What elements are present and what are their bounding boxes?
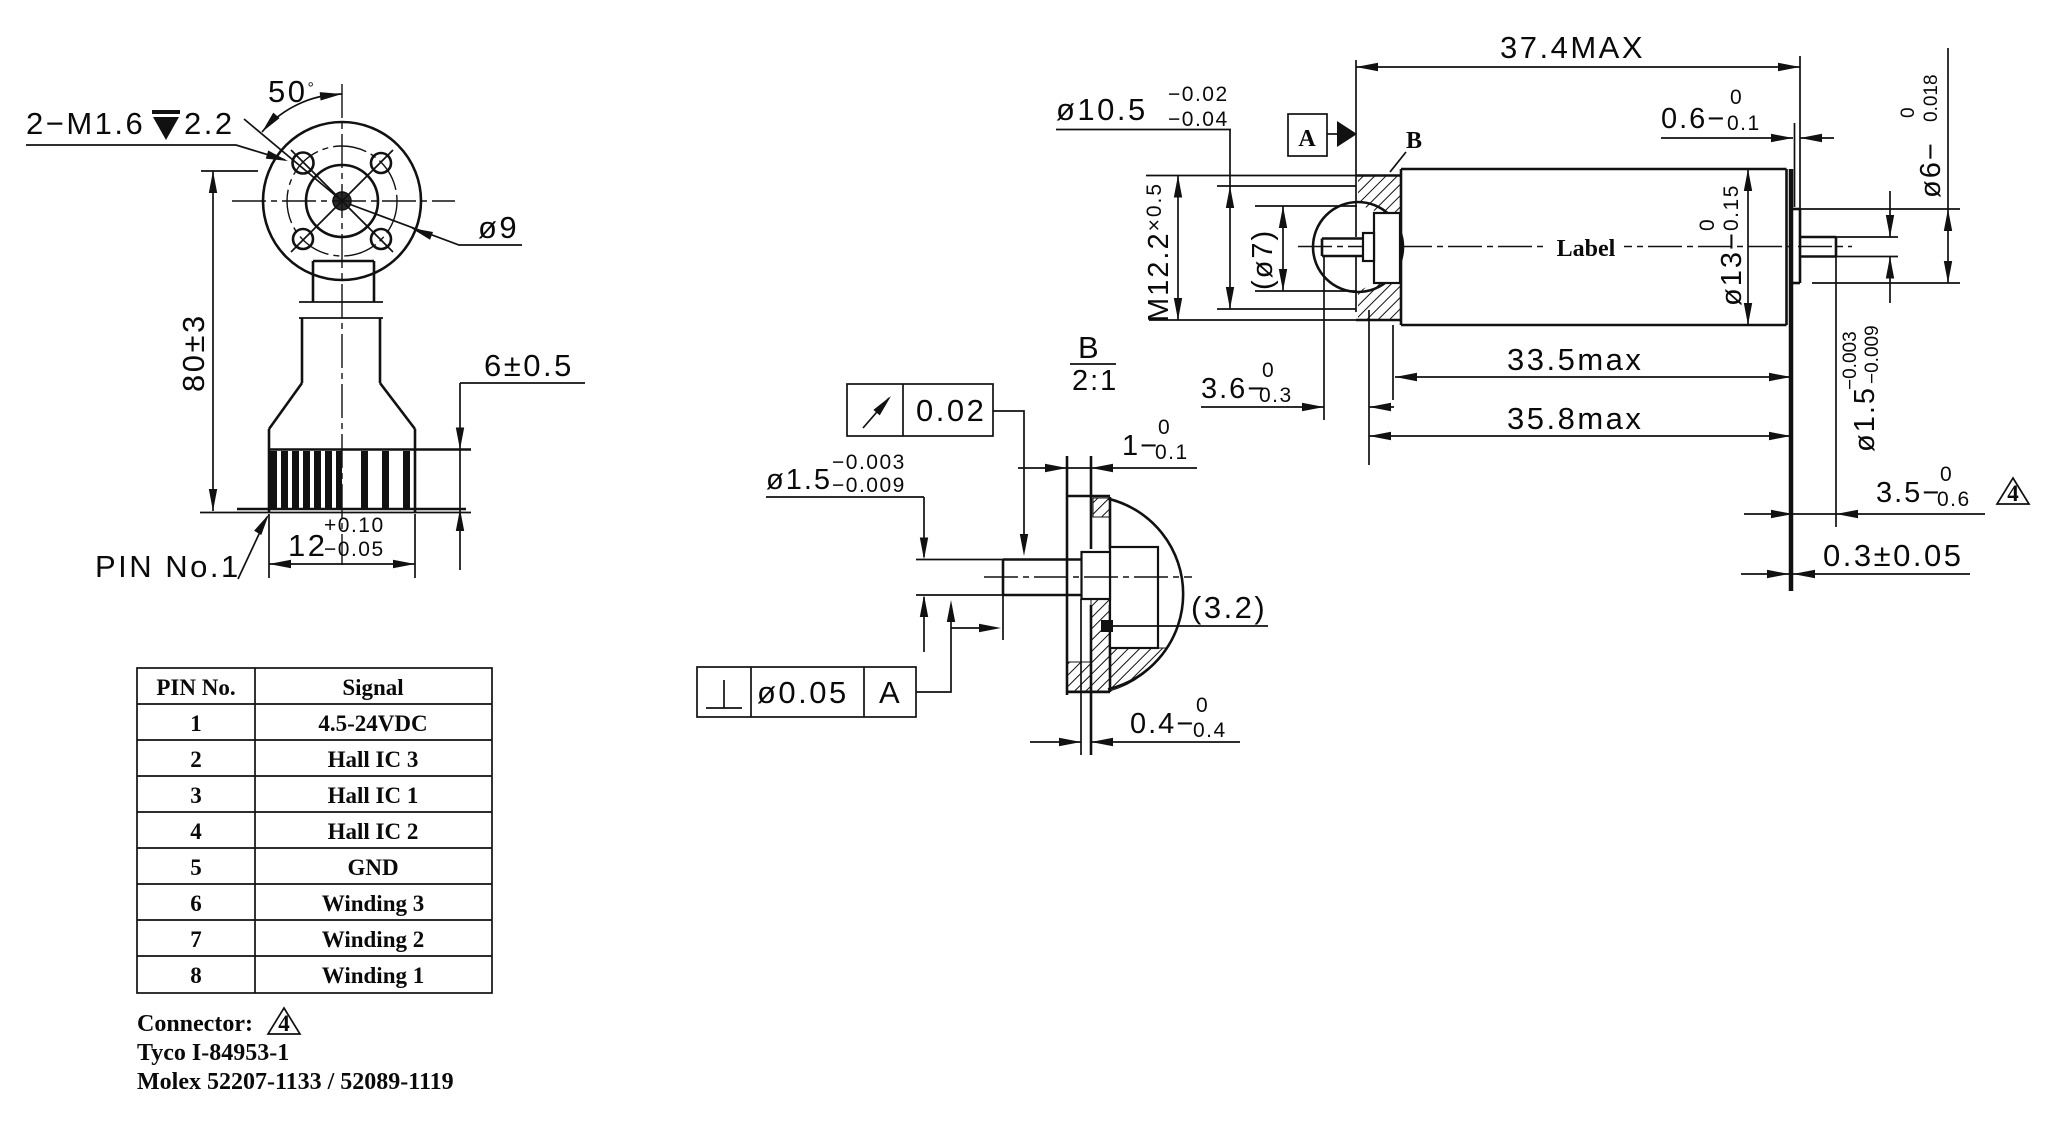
svg-text:0.3±0.05: 0.3±0.05 bbox=[1823, 538, 1963, 573]
svg-text:Hall IC 3: Hall IC 3 bbox=[328, 747, 419, 772]
svg-text:−0.05: −0.05 bbox=[324, 538, 385, 561]
svg-text:3: 3 bbox=[190, 783, 202, 808]
svg-text:0.4−: 0.4− bbox=[1130, 708, 1195, 740]
svg-text:Molex 52207-1133 / 52089-1119: Molex 52207-1133 / 52089-1119 bbox=[137, 1069, 454, 1095]
svg-text:35.8max: 35.8max bbox=[1507, 401, 1643, 436]
svg-text:−0.003: −0.003 bbox=[1840, 331, 1861, 390]
svg-text:0.1: 0.1 bbox=[1155, 441, 1189, 464]
svg-text:−0.04: −0.04 bbox=[1168, 108, 1229, 131]
svg-text:−0.02: −0.02 bbox=[1168, 83, 1229, 106]
svg-text:ø1.5: ø1.5 bbox=[766, 464, 832, 496]
svg-text:1: 1 bbox=[190, 711, 202, 736]
svg-text:(ø7): (ø7) bbox=[1247, 229, 1279, 290]
svg-text:0.4: 0.4 bbox=[1193, 719, 1227, 742]
svg-text:12: 12 bbox=[288, 528, 327, 563]
svg-text:0.02: 0.02 bbox=[916, 393, 986, 428]
svg-text:PIN No.: PIN No. bbox=[156, 675, 235, 700]
svg-text:0: 0 bbox=[1940, 463, 1953, 486]
svg-text:2−M1.6: 2−M1.6 bbox=[26, 106, 145, 141]
svg-text:ø6−: ø6− bbox=[1915, 141, 1947, 198]
svg-text:−0.009: −0.009 bbox=[832, 474, 906, 497]
svg-text:Signal: Signal bbox=[342, 675, 403, 700]
svg-text:Label: Label bbox=[1557, 236, 1616, 262]
svg-text:B: B bbox=[1078, 330, 1101, 365]
svg-text:−0.009: −0.009 bbox=[1862, 325, 1883, 384]
svg-text:3.5−: 3.5− bbox=[1876, 477, 1941, 509]
svg-text:Connector:: Connector: bbox=[137, 1011, 253, 1037]
svg-text:3.6−: 3.6− bbox=[1201, 373, 1266, 405]
svg-text:+0.10: +0.10 bbox=[324, 514, 385, 537]
svg-text:ø9: ø9 bbox=[478, 210, 519, 245]
svg-text:0: 0 bbox=[1730, 86, 1743, 109]
svg-text:B: B bbox=[1406, 128, 1422, 154]
svg-text:0: 0 bbox=[1262, 359, 1275, 382]
svg-text:(3.2): (3.2) bbox=[1191, 590, 1267, 625]
svg-text:2:1: 2:1 bbox=[1072, 365, 1118, 397]
svg-text:33.5max: 33.5max bbox=[1507, 342, 1643, 377]
svg-text:4.5-24VDC: 4.5-24VDC bbox=[318, 711, 427, 736]
svg-text:4: 4 bbox=[190, 819, 202, 844]
svg-text:−0.003: −0.003 bbox=[832, 451, 906, 474]
svg-text:Hall IC 1: Hall IC 1 bbox=[328, 783, 419, 808]
svg-text:4: 4 bbox=[278, 1011, 290, 1036]
svg-text:Hall IC 2: Hall IC 2 bbox=[328, 819, 419, 844]
svg-text:Winding 2: Winding 2 bbox=[322, 927, 425, 952]
svg-text:5: 5 bbox=[190, 855, 202, 880]
svg-text:0: 0 bbox=[1196, 694, 1209, 717]
svg-text:A: A bbox=[879, 675, 902, 710]
svg-text:1−: 1− bbox=[1122, 430, 1159, 462]
svg-text:6: 6 bbox=[190, 891, 202, 916]
svg-text:ø10.5: ø10.5 bbox=[1056, 92, 1148, 127]
svg-text:0: 0 bbox=[1158, 416, 1171, 439]
svg-text:A: A bbox=[1298, 126, 1316, 152]
svg-text:0.018: 0.018 bbox=[1921, 74, 1942, 122]
svg-text:4: 4 bbox=[2007, 481, 2019, 506]
svg-text:0: 0 bbox=[1898, 107, 1919, 118]
svg-text:2: 2 bbox=[190, 747, 202, 772]
svg-text:0.1: 0.1 bbox=[1727, 112, 1761, 135]
svg-text:ø0.05: ø0.05 bbox=[757, 675, 849, 710]
svg-text:2.2: 2.2 bbox=[184, 106, 235, 141]
svg-text:0.3: 0.3 bbox=[1259, 384, 1293, 407]
svg-text:ø13−: ø13− bbox=[1716, 231, 1748, 306]
svg-text:80±3: 80±3 bbox=[176, 313, 211, 392]
svg-text:0: 0 bbox=[1696, 218, 1719, 231]
svg-text:0.15: 0.15 bbox=[1720, 184, 1743, 231]
svg-text:8: 8 bbox=[190, 963, 202, 988]
svg-text:37.4MAX: 37.4MAX bbox=[1500, 30, 1645, 65]
svg-text:7: 7 bbox=[190, 927, 202, 952]
svg-text:Winding 3: Winding 3 bbox=[322, 891, 425, 916]
svg-text:0.6: 0.6 bbox=[1937, 488, 1971, 511]
svg-text:ø1.5: ø1.5 bbox=[1849, 386, 1881, 452]
svg-text:PIN No.1: PIN No.1 bbox=[95, 549, 241, 584]
svg-text:Winding 1: Winding 1 bbox=[322, 963, 425, 988]
svg-text:6±0.5: 6±0.5 bbox=[484, 348, 574, 383]
svg-text:0.6−: 0.6− bbox=[1661, 103, 1726, 135]
svg-text:GND: GND bbox=[347, 855, 398, 880]
svg-text:Tyco I-84953-1: Tyco I-84953-1 bbox=[137, 1040, 289, 1066]
